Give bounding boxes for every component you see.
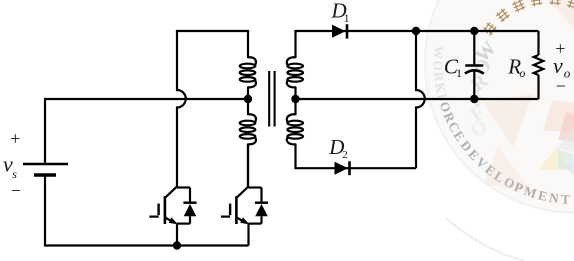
svg-text:s: s (12, 167, 17, 181)
svg-text:2: 2 (342, 149, 348, 161)
svg-text:1: 1 (344, 13, 350, 25)
svg-text:−: − (11, 181, 21, 201)
svg-text:+: + (555, 38, 565, 58)
svg-text:o: o (519, 66, 525, 80)
svg-text:1: 1 (456, 66, 462, 80)
svg-text:+: + (10, 129, 20, 149)
svg-text:−: − (556, 76, 566, 96)
